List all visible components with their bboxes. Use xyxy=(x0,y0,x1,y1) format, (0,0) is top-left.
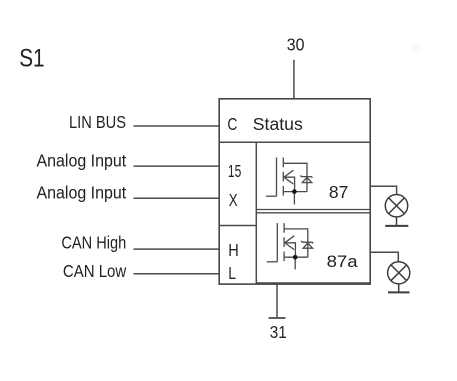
ground bar below lamp E1 xyxy=(385,225,408,227)
Q1 gate lead xyxy=(266,195,277,197)
wire Analog Input to pin X xyxy=(134,197,220,199)
wire lamp E2 to ground xyxy=(398,284,400,292)
Q2 drain rail to diode branch xyxy=(284,229,308,257)
Q1 channel (dashed) xyxy=(282,158,284,197)
MOSFET Q1 (output 87) xyxy=(266,158,313,205)
wire terminal 30 to box top xyxy=(293,60,295,99)
Q2 source junction dot xyxy=(293,255,298,260)
svg-text:15: 15 xyxy=(228,161,241,181)
Q2 source rail xyxy=(284,256,308,258)
wire LIN BUS to pin C xyxy=(134,125,220,127)
wire Analog Input to pin 15 xyxy=(134,165,220,167)
Q2 gate electrode xyxy=(276,223,278,262)
Q2 gate lead xyxy=(267,261,278,263)
divider below C/Status row xyxy=(219,141,370,143)
svg-text:Status: Status xyxy=(253,114,303,134)
wire lamp E1 to ground xyxy=(396,217,398,225)
Q2 body diode D2 triangle xyxy=(303,243,312,248)
lamp E1 xyxy=(385,195,407,217)
svg-text:CAN Low: CAN Low xyxy=(63,261,127,281)
svg-text:CAN High: CAN High xyxy=(61,233,126,253)
Q1 body diode D1 triangle xyxy=(302,177,311,182)
svg-text:H: H xyxy=(228,240,239,260)
Q2 channel (dashed) xyxy=(283,223,285,262)
lamp E2 xyxy=(388,262,410,284)
wire CAN High to pin H xyxy=(134,248,220,250)
svg-text:87a: 87a xyxy=(327,252,359,271)
svg-text:S1: S1 xyxy=(19,44,44,72)
svg-text:LIN BUS: LIN BUS xyxy=(69,112,126,132)
svg-text:C: C xyxy=(227,114,237,134)
wire box bottom to terminal 31 xyxy=(276,284,278,317)
Q1 gate electrode xyxy=(276,158,278,197)
svg-text:Analog Input: Analog Input xyxy=(37,150,127,170)
Q1 body arrow stub xyxy=(284,177,295,191)
Q1 source down lead xyxy=(293,192,295,205)
wire output 87 to lamp E1 xyxy=(370,186,396,194)
svg-text:Analog Input: Analog Input xyxy=(37,183,127,203)
Q1 drain rail to diode branch xyxy=(283,163,307,191)
faint artifact dot top right xyxy=(412,44,422,54)
Q2 body arrow barbs xyxy=(285,236,295,250)
ground bar below lamp E2 xyxy=(388,291,410,293)
svg-text:87: 87 xyxy=(329,182,348,202)
pin column divider xyxy=(255,142,257,284)
Q1 body arrow barbs xyxy=(284,170,294,184)
wire output 87a to lamp E2 xyxy=(370,252,398,262)
Q1 source rail xyxy=(283,191,307,193)
svg-text:X: X xyxy=(229,190,238,210)
MOSFET Q2 (output 87a) xyxy=(267,223,314,269)
svg-text:L: L xyxy=(228,263,236,283)
svg-text:31: 31 xyxy=(270,322,287,342)
divider between X and H pin cells xyxy=(219,225,256,227)
smart switch U1 outer box xyxy=(219,99,370,284)
Q2 body arrow stub xyxy=(285,243,296,257)
output stage 87 sub-box bottom edge xyxy=(256,209,370,211)
Q2 body diode D2 cathode bar with zener ticks xyxy=(301,241,313,243)
output stage 87a sub-box bottom edge xyxy=(256,282,370,284)
svg-text:30: 30 xyxy=(287,34,305,54)
Q1 source junction dot xyxy=(292,189,297,194)
terminal 31 bar xyxy=(269,317,286,319)
Q2 source down lead xyxy=(294,257,296,269)
output stage 87a sub-box top edge xyxy=(256,212,370,214)
Q1 body diode D1 cathode bar with zener ticks xyxy=(300,175,312,177)
wire CAN Low to pin L xyxy=(134,273,220,275)
